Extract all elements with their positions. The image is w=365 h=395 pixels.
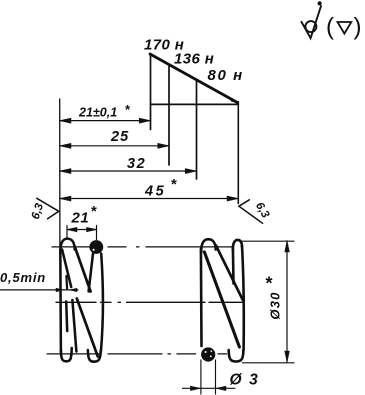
dimension D3 extension lines [200,360,202,394]
dimension D30 extension top [243,240,295,242]
left spring wire section dot [89,240,103,254]
dimension 45* line [60,198,239,200]
svg-text:*: * [171,176,177,193]
label 0,5min [0,270,46,285]
right spring right outer edge [242,246,244,350]
label 136 n [174,51,214,68]
left spring coil diagonal 2 [77,299,98,357]
dimension 25 line [60,145,169,147]
label D30* [266,274,283,320]
label 45* [144,176,177,200]
svg-text:6,3: 6,3 [30,201,47,220]
svg-text:(: ( [326,14,334,41]
parentheses with triangle [326,14,362,41]
svg-text:Ø 3: Ø 3 [230,372,260,389]
left spring inner coil line lower [66,302,67,332]
right spring top-left end coil [201,239,216,252]
label 80 n [208,67,244,84]
label 21* [71,203,98,227]
svg-text:45: 45 [144,184,166,200]
force diagram right vertical [237,102,239,204]
dimension D3 line [183,387,236,389]
leader 0,5min [0,289,78,291]
svg-text:0,5min: 0,5min [0,270,46,285]
dimension 21+-0,1 line [60,120,151,122]
svg-text:136 н: 136 н [174,51,214,68]
label 170 n [144,37,184,54]
svg-text:): ) [354,14,362,41]
centerline top coils [52,246,234,248]
force diagram baseline [151,103,239,105]
svg-text:32: 32 [127,156,146,172]
svg-text:Ø30: Ø30 [268,291,283,319]
dimension 32 line [60,170,197,172]
left spring bottom-left loop [61,348,72,361]
left spring coil back line 1 [89,254,93,292]
centerline bottom coils [47,353,227,355]
load line end arrow [229,98,238,103]
right spring left outer edge [200,249,203,346]
label D3 [230,372,260,389]
centerline middle coil [56,301,244,303]
right spring coil diagonal 2 [216,246,243,301]
right spring bottom-right loop [229,350,244,362]
right spring top-right end coil [233,240,242,250]
left spring bottom-right loop [88,350,101,362]
svg-text:21±0,1: 21±0,1 [78,106,117,120]
surface finish symbol (rest of surfaces) [301,6,321,38]
force diagram load line (diagonal) [150,54,238,103]
force diagram left vertical [150,54,152,130]
force diagram vertical at 25 [168,65,170,166]
label 32 [127,156,146,172]
label 21+-0,1* [78,102,131,120]
left spring coil diagonal 1 [75,247,91,292]
svg-text:*: * [266,274,273,294]
left spring [60,239,103,362]
dimension D30 line [286,241,288,362]
left spring inner coil stub [65,276,68,289]
force diagram vertical at 32 [196,80,198,179]
right spring [201,239,244,361]
left spring right outer edge [101,254,103,352]
right spring coil diagonal 1 [204,252,239,347]
svg-text:*: * [125,102,131,117]
right spring wire section dot [201,347,215,361]
dimension 21* (coil pitch) [66,226,68,238]
right spring wire end inner line [232,248,235,284]
svg-text:80 н: 80 н [208,67,244,84]
svg-text:21: 21 [71,210,90,227]
left spring coil mid line [72,300,76,352]
svg-text:25: 25 [110,129,129,145]
label 25 [110,129,129,145]
left spring inner coil line upper [62,250,71,288]
roughness mark 6,3 right [239,200,263,224]
left spring top end coil [60,239,74,253]
left spring left outer edge [59,250,62,352]
left extension line (spring left face) [59,99,61,246]
svg-text:*: * [91,203,97,220]
roughness mark 6,3 left [37,198,59,219]
dimension D30 extension bottom [243,362,295,364]
